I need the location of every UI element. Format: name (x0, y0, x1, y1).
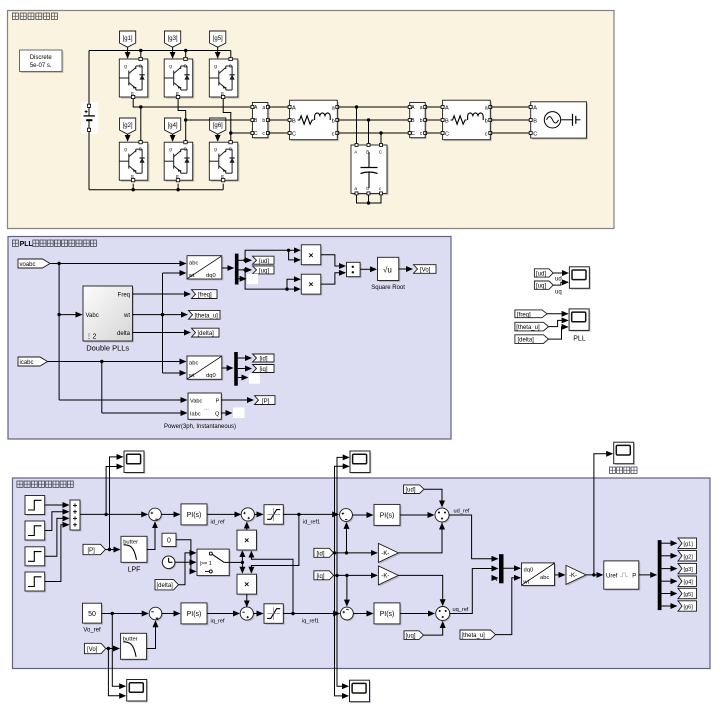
wire P to [P] (221, 399, 253, 401)
svg-text:[g5]: [g5] (213, 36, 223, 42)
wire [Vo] to butter2 (106, 648, 119, 650)
svg-text:50: 50 (88, 611, 96, 618)
wires measurement1 to RL branch (268, 107, 290, 133)
wire dq0-abc to gain3 (555, 574, 565, 576)
product block u*u (d) (301, 245, 322, 266)
svg-text:wt: wt (123, 313, 130, 319)
svg-text:[P]: [P] (88, 548, 96, 554)
wire P_ref to sum1 (80, 513, 147, 515)
svg-text:wt: wt (188, 373, 195, 379)
svg-text:[theta_u]: [theta_u] (462, 633, 486, 639)
svg-text:P: P (632, 574, 636, 580)
wire u0 to terminator patch (239, 278, 246, 280)
From tag icabc (18, 357, 48, 366)
wire sum7 to PI3 (352, 514, 372, 516)
svg-text:[g4]: [g4] (684, 580, 694, 586)
goto tag [freq] (192, 290, 218, 299)
svg-text:5e-07 s.: 5e-07 s. (30, 63, 52, 69)
svg-text:abc: abc (189, 260, 198, 266)
phase B node wire (178, 99, 252, 141)
sum6 iq compensation (240, 607, 255, 622)
product block 1 (id decouple) (237, 530, 258, 551)
svg-text:Freq: Freq (118, 293, 130, 299)
goto tag [P] (255, 396, 276, 405)
svg-text:abc: abc (540, 575, 549, 581)
wire PI3 to sum8 (400, 514, 434, 516)
svg-text:[ud]: [ud] (259, 259, 269, 265)
wire PWM to demux (639, 574, 656, 576)
svg-text:ud: ud (555, 277, 562, 283)
junction DC+ bus (139, 49, 142, 52)
svg-text:[uq]: [uq] (259, 269, 269, 275)
constant 0 (162, 533, 178, 548)
svg-text:[delta]: [delta] (518, 338, 535, 344)
PI controller 2 (voltage loop) (181, 603, 209, 626)
svg-text:[P]: [P] (262, 399, 270, 405)
area box: 改进的双闭环控制 (13, 478, 711, 669)
svg-text:[theta_u]: [theta_u] (516, 325, 540, 331)
three-phase series RL branch 2 (grid impedance) (441, 100, 492, 141)
svg-text:[g3]: [g3] (168, 36, 178, 42)
butterworth filter 2 (121, 633, 149, 661)
From tag [g3] (165, 31, 181, 58)
svg-text:Vabc: Vabc (190, 398, 203, 404)
svg-text:[uq]: [uq] (536, 284, 546, 290)
terminator white patch 1 (247, 274, 258, 284)
three-phase series RL branch 1 (288, 100, 339, 141)
three-phase V-I measurement 2 (408, 103, 427, 140)
DC voltage source E (81, 51, 98, 190)
subsystem Double PLLs (83, 286, 134, 353)
powergui block Discrete 5e-07 s. (20, 50, 64, 73)
wire sum10 to PI4 (353, 613, 372, 615)
sqrt block Square Root (371, 257, 405, 291)
wire gain2 to sum9 top (398, 575, 442, 605)
From tag [g6] (210, 118, 226, 141)
wire id_ref1 down to product2 (251, 514, 299, 572)
wire uq out (239, 270, 300, 289)
sum1 power loop (149, 508, 163, 522)
From tag [freq] (PLL scope) (515, 310, 547, 318)
goto tag [theta_u] (189, 310, 221, 319)
svg-text:wt: wt (522, 579, 529, 585)
wire Vo_ref down to scope Vo in1 (112, 614, 125, 687)
svg-text:iq_ref1: iq_ref1 (302, 619, 319, 625)
svg-text:id_ref1: id_ref1 (303, 520, 320, 526)
PWM generator block Uref P (604, 561, 641, 591)
wire sum8 to mux in1 (449, 515, 498, 559)
From tag [uq] (scope feed) (534, 281, 553, 290)
wire icabc down to power meter (102, 362, 187, 414)
From tag [P] (83, 544, 105, 554)
title 改进的双闭环控制 (17, 481, 73, 487)
wire sum1 to PI 1 (161, 513, 179, 515)
gain -K- 3 (modulation scale) (566, 565, 588, 586)
wire g4 (662, 580, 677, 582)
goto tag [g2] (678, 551, 697, 561)
svg-text:[ud]: [ud] (406, 488, 416, 494)
svg-text:|>= 1: |>= 1 (200, 561, 212, 567)
svg-text:[g3]: [g3] (684, 567, 694, 573)
svg-text:[uq]: [uq] (406, 634, 416, 640)
power measurement block Power(3ph, Instantaneous) (164, 393, 236, 430)
area box: 逆变器主电路 (8, 11, 615, 229)
svg-text:[freq]: [freq] (198, 293, 212, 299)
wire id up to sum7 (346, 523, 348, 553)
saturation 1 (264, 505, 285, 526)
wire g1 (662, 542, 677, 544)
svg-text:[g1]: [g1] (123, 36, 133, 42)
wire g2 (662, 555, 677, 557)
svg-text:[g6]: [g6] (684, 605, 694, 611)
sum5 voltage loop (149, 607, 163, 621)
svg-text:id_ref: id_ref (211, 520, 225, 526)
transform block dq0 to abc (522, 563, 557, 587)
svg-text:[g4]: [g4] (168, 123, 178, 129)
IGBT arm 1 (upper A) (119, 57, 149, 98)
step source 1 (25, 496, 46, 517)
wire [ud] to sum8 (424, 489, 442, 506)
adder block (sum of squares) (347, 262, 362, 278)
mux bar (dq0 assembly) (499, 554, 504, 583)
From tag [g5] (210, 31, 226, 58)
svg-text:[Vo]: [Vo] (420, 268, 431, 274)
svg-text:[g2]: [g2] (123, 123, 133, 129)
svg-text:P: P (216, 398, 220, 404)
svg-text:PLL: PLL (20, 241, 34, 248)
wire saturation1 to sum7 (id_ref1) (283, 513, 338, 515)
svg-text:LPF: LPF (128, 567, 141, 574)
IGBT arm 4 (lower B) (164, 141, 194, 182)
wire [theta_u] to PLL scope (549, 320, 568, 326)
gain -K- 2 (wL on iq) (378, 566, 400, 587)
product block 2 (iq decouple) (237, 574, 258, 595)
svg-text:uq_ref: uq_ref (453, 607, 469, 613)
svg-text:[g6]: [g6] (213, 123, 223, 129)
From tag [theta_u] (dq0-abc) (460, 630, 496, 639)
wire [ud] to scope ud/uq, label ud (553, 272, 568, 274)
From tag [delta] (PLL scope) (515, 335, 549, 344)
wire butter2 to sum5 feedback (147, 621, 156, 648)
demux bar 2 (234, 352, 238, 386)
goto tag [g1] (678, 538, 697, 548)
From tag [g1] (120, 31, 136, 58)
wire icabc to abc-dq0 #2 (48, 361, 186, 363)
scope 调制信号 (modulation) (609, 442, 637, 473)
wire saturation2 to sum10 (iq_ref1) (283, 613, 339, 615)
wire 50 to sum5 (102, 613, 148, 615)
svg-text:[delta]: [delta] (198, 331, 215, 337)
three-phase V-I measurement 1 (251, 103, 270, 140)
IGBT arm 6 (lower C) (209, 141, 239, 182)
svg-text:A: A (533, 105, 537, 111)
wire gain1 to sum8 bottom (398, 524, 442, 553)
svg-text:B: B (533, 118, 537, 124)
sum10 iq current loop (341, 607, 355, 621)
wire mux to dq0-abc (504, 567, 521, 569)
From tag [id] (314, 548, 334, 557)
From tag voabc (18, 259, 50, 268)
wire [uq] to sum9 bottom (424, 622, 443, 635)
svg-text:iq_ref: iq_ref (211, 619, 225, 625)
area box: 双PLL坐标变换及功率计算 (8, 237, 451, 440)
wire abc-dq0#2 out to demux 2 (222, 367, 233, 369)
wire [id] to gain1, branches (334, 552, 377, 554)
wire 0 to switch in3 (176, 540, 196, 572)
wire Q to terminator patch (221, 412, 231, 414)
wires measurement2 to RL branch 2 (425, 107, 442, 133)
capacitor neutral shorting wires (357, 195, 382, 203)
goto tag [g3] (678, 563, 697, 573)
gain -K- 1 (wL on id) (378, 543, 400, 564)
svg-text:uq: uq (555, 290, 562, 296)
svg-text:voabc: voabc (20, 262, 36, 268)
goto tag [g5] (678, 588, 697, 598)
butterworth LPF block (121, 536, 149, 573)
switch block (t >= 1) (197, 549, 231, 577)
three-phase programmable source block (529, 102, 588, 140)
wire sqrt to [Vo] (399, 268, 412, 270)
wire delta to [delta] (133, 332, 191, 334)
rectangular add block (P_ref builder) (70, 500, 82, 532)
wire sum6 to saturation2 (253, 613, 262, 615)
svg-text:PLL: PLL (573, 336, 586, 343)
wire Freq to [freq] (133, 293, 191, 295)
wire P up to scope P in1 (110, 457, 123, 550)
svg-text:Iabc: Iabc (190, 411, 201, 417)
wires products to adder (321, 255, 345, 284)
three-phase capacitor bank block (351, 144, 389, 195)
svg-text:[Vo]: [Vo] (87, 647, 98, 653)
svg-text:√u: √u (383, 265, 392, 274)
svg-text:C: C (533, 131, 537, 137)
wire g5 (662, 593, 677, 595)
svg-text:Q: Q (215, 411, 220, 417)
wire modulation signal up to scope (594, 454, 612, 575)
wire PI2 to sum6 (207, 613, 239, 615)
wire [theta_u] to dq0-abc wt (496, 578, 521, 635)
svg-text:0: 0 (167, 538, 171, 545)
wire g3 (662, 568, 677, 570)
scope ud/uq (569, 267, 590, 290)
svg-text:Power(3ph, Instantaneous): Power(3ph, Instantaneous) (164, 424, 236, 430)
svg-text:delta: delta (117, 331, 131, 337)
wire id out (238, 357, 251, 359)
From tag [g2] (120, 118, 136, 141)
wire voabc down to Double PLLs and power meter (59, 264, 186, 401)
wire wt to [theta_u] and vertical wt feed (133, 273, 188, 373)
wire gain3 to PWM generator (586, 574, 602, 576)
svg-text:[id]: [id] (317, 551, 325, 557)
goto tag [iq] (253, 365, 275, 374)
sum4 id compensation (241, 508, 256, 522)
svg-text:…: … (204, 406, 209, 412)
goto tag [ud] (253, 256, 275, 265)
wire Vo down to scope Vo in2 (108, 649, 125, 696)
wire [delta] to switch in1 (179, 553, 196, 585)
wire PI1 to sum4 (207, 513, 240, 515)
phase C node wire (223, 99, 252, 141)
terminator white patch 3 (233, 408, 245, 419)
wire step1 to adder (45, 504, 69, 506)
sum9 uq_ref (436, 607, 451, 622)
svg-text:[g1]: [g1] (684, 542, 694, 548)
wire LPF to sum1 feedback (147, 522, 155, 549)
svg-text:Vabc: Vabc (86, 313, 99, 319)
sum7 id current loop (340, 509, 354, 523)
svg-text:[ud]: [ud] (536, 272, 546, 278)
svg-text:[delta]: [delta] (157, 583, 174, 589)
From tag [uq] (feedforward) (404, 631, 424, 640)
long monitor wire iq to scopes (337, 457, 349, 686)
DC+ bus wire (89, 51, 231, 58)
PI controller 1 (P loop) (181, 504, 209, 527)
goto tag [id] (253, 354, 275, 363)
wire abc-dq0#1 out to demux (222, 267, 234, 269)
IGBT arm 5 (upper C) (209, 57, 239, 98)
wire [freq] to PLL scope (547, 313, 568, 315)
wire ud out (239, 250, 300, 260)
title 逆变器主电路 (CJK boxes) (12, 13, 57, 19)
PI controller 3 (id loop) (374, 504, 402, 527)
svg-text:Uref: Uref (606, 574, 618, 580)
scope PLL (569, 309, 590, 343)
step source 2 (25, 521, 46, 542)
goto tag [delta] (192, 328, 220, 337)
wire [iq] to gain2, branches (334, 574, 377, 576)
wire sum4 to saturation1 (254, 513, 262, 515)
From tag [ud] (scope feed) (534, 269, 553, 278)
svg-text:abc: abc (189, 361, 198, 367)
scope P (top left) (124, 451, 145, 474)
wire [uq] to scope ud/uq, label uq (553, 282, 568, 285)
title 双PLL坐标变换及功率计算 (12, 240, 96, 248)
constant 50 Vo_ref (83, 603, 104, 633)
mux unconnected third input stub (492, 576, 498, 581)
wire iq out (238, 368, 251, 370)
wire step4 to adder (45, 525, 69, 582)
sum8 ud_ref (435, 508, 450, 523)
wire step2 to adder (45, 512, 69, 531)
DC- bus wire (89, 184, 223, 190)
wire product2 to sum6 (246, 594, 248, 606)
svg-text:dq0: dq0 (524, 567, 534, 573)
wire PI4 to sum9 (400, 613, 434, 615)
svg-text:⋮2: ⋮2 (86, 334, 97, 341)
From tag [iq] (314, 571, 334, 580)
goto tag [g6] (678, 601, 697, 611)
terminator white patch 2 (249, 374, 260, 384)
transform block abc to dq0 #2 (187, 356, 223, 381)
svg-text:a: a (354, 186, 357, 191)
svg-text:[g2]: [g2] (684, 554, 694, 560)
svg-text:[id]: [id] (260, 357, 268, 363)
svg-text:[iq]: [iq] (317, 574, 325, 580)
From tag [delta] (switch) (155, 580, 179, 590)
From tag [Vo] (85, 643, 106, 653)
wires RL1 to measurement2 with capacitor taps (337, 107, 409, 144)
wire sum5 to PI 2 (162, 613, 180, 615)
svg-text:Square Root: Square Root (371, 285, 405, 291)
wire P_ref up to scope P in2 (106, 467, 122, 515)
step source 3 (25, 547, 46, 568)
From tag [theta_u] (PLL scope) (515, 322, 549, 331)
svg-text:Vo_ref: Vo_ref (83, 627, 101, 633)
scope Vo (bottom left) (127, 680, 148, 703)
svg-text:wt: wt (188, 273, 195, 279)
wires RL2 to grid source (490, 107, 530, 133)
svg-text:Discrete: Discrete (30, 55, 53, 61)
svg-text:dq0: dq0 (206, 373, 216, 379)
goto tag [Vo] (414, 265, 437, 274)
transform block abc to dq0 #1 (187, 256, 223, 281)
wire voabc to abc-dq0 #1 (50, 263, 186, 265)
wire g6 (662, 605, 677, 607)
scope id/iq (top middle) (350, 451, 371, 474)
svg-text:[iq]: [iq] (260, 367, 268, 373)
wire switch out to products (229, 551, 242, 573)
scope id/iq (bottom middle) (350, 680, 371, 703)
svg-text:icabc: icabc (20, 360, 34, 366)
wire step3 to adder (45, 518, 69, 556)
svg-text:[theta_u]: [theta_u] (195, 313, 219, 319)
clock block (162, 556, 176, 570)
From tag [g4] (165, 118, 181, 141)
demux bar (gate signals) (658, 540, 662, 610)
svg-text:ud_ref: ud_ref (454, 509, 470, 515)
product block u*u (q) (301, 274, 322, 295)
phase A node wire (133, 99, 252, 141)
goto tag [g4] (678, 576, 697, 586)
svg-text:dq0: dq0 (206, 273, 216, 279)
step source 4 (25, 572, 46, 593)
svg-text:[g5]: [g5] (684, 592, 694, 598)
demux bar 1 (235, 254, 239, 285)
wire i0 to terminator patch (238, 377, 248, 379)
IGBT arm 3 (upper B) (164, 57, 194, 98)
IGBT arm 2 (lower A) (119, 141, 149, 182)
svg-text:Double PLLs: Double PLLs (86, 344, 129, 353)
long monitor wire id to scopes (335, 466, 349, 696)
goto tag [uq] (253, 266, 275, 275)
wire iq down to sum10 (346, 575, 348, 605)
wire sum9 to mux in2 (450, 569, 498, 614)
wire clock to switch in2 (175, 561, 196, 563)
PI controller 4 (iq loop) (374, 603, 402, 626)
wire [P] to LPF (105, 549, 119, 551)
wire [delta] to PLL scope (549, 327, 568, 339)
wire adder to sqrt (360, 268, 376, 270)
wire product1 to sum4 (246, 523, 248, 531)
saturation 2 (264, 604, 285, 625)
wire iq_ref1 feedback to product1 (251, 552, 293, 614)
svg-text:[freq]: [freq] (517, 312, 531, 318)
From tag [ud] (feedforward) (404, 485, 425, 494)
